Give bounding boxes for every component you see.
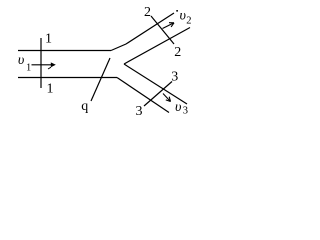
label v2	[180, 9, 192, 27]
svg-text:1: 1	[47, 82, 54, 97]
wire main channel top wall	[18, 50, 111, 52]
wire lower branch top wall	[124, 64, 187, 104]
svg-text:3: 3	[183, 105, 188, 116]
wire section line 3-3	[144, 82, 172, 107]
svg-text:υ: υ	[18, 53, 24, 68]
wire lower branch bottom wall	[117, 78, 169, 113]
wire leader line q	[91, 58, 110, 101]
wire section line 1-1	[40, 38, 42, 88]
svg-text:3: 3	[136, 104, 143, 119]
svg-text:3: 3	[171, 69, 178, 84]
label v1	[18, 53, 31, 73]
label v3	[175, 100, 188, 116]
wire section line 2-2	[151, 16, 174, 44]
svg-text:1: 1	[45, 32, 52, 47]
arrow v1	[32, 62, 56, 69]
wire upper branch top wall	[111, 13, 174, 51]
arrow v2	[163, 23, 175, 29]
wire upper branch bottom wall	[124, 28, 190, 65]
arrow v3	[163, 94, 171, 102]
svg-text:2: 2	[186, 15, 191, 26]
svg-text:2: 2	[144, 5, 151, 20]
svg-text:υ: υ	[175, 100, 181, 115]
svg-text:2: 2	[174, 45, 181, 60]
wire main channel bottom wall	[18, 77, 117, 79]
svg-text:υ: υ	[180, 9, 186, 24]
svg-text:q: q	[81, 99, 88, 114]
svg-text:1: 1	[26, 63, 31, 74]
dot speck near v2	[176, 10, 178, 12]
